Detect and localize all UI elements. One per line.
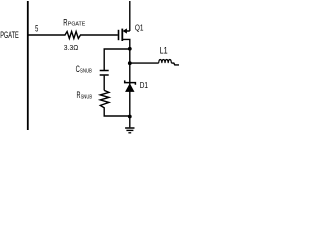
svg-text:SNUB: SNUB [81,94,93,100]
svg-text:L1: L1 [160,45,168,55]
svg-text:3.3Ω: 3.3Ω [64,43,79,52]
svg-text:PGATE: PGATE [68,22,86,28]
svg-text:5: 5 [35,23,38,33]
svg-text:D1: D1 [140,81,148,90]
svg-text:SNUB: SNUB [80,68,92,74]
svg-text:PGATE: PGATE [0,30,19,40]
svg-text:Q1: Q1 [135,23,144,32]
